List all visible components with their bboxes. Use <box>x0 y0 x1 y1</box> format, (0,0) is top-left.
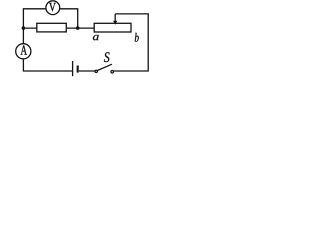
resistor R1 <box>37 23 67 32</box>
node: right junction <box>76 26 80 30</box>
switch S <box>95 64 113 73</box>
rheostat R2 body <box>94 23 131 32</box>
battery B1 long plate <box>72 61 74 76</box>
node: left junction <box>22 26 26 30</box>
wire: V branch right vertical, top wire, left vertical, bottom-left to battery <box>23 9 77 71</box>
label S <box>104 52 110 62</box>
ammeter U2 <box>16 44 31 59</box>
label b <box>135 33 139 42</box>
label a <box>93 35 99 40</box>
wire: middle horizontal (left node to rheostat) <box>23 27 94 29</box>
rheostat slider arrow <box>113 14 117 25</box>
battery B1 short plate <box>77 66 79 73</box>
wire: slider top wire, right vertical, bottom-right to switch <box>114 14 149 71</box>
wire: battery to switch <box>79 70 95 72</box>
voltmeter U1 <box>46 1 60 15</box>
